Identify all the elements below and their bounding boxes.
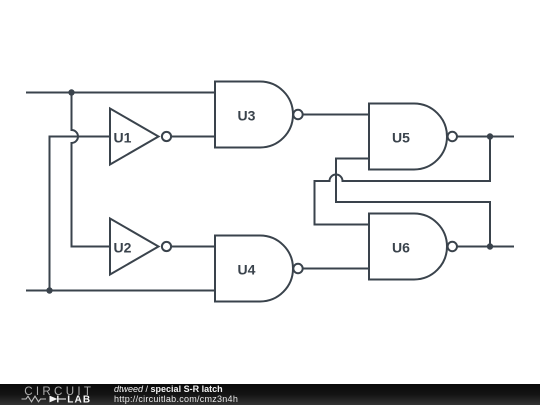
wire U6 output Q-bar [458, 246, 513, 248]
svg-text:U5: U5 [392, 130, 410, 146]
wire U1 out to U3 [172, 136, 215, 138]
node junction top [68, 89, 74, 95]
wire hop arc at (336,181) [330, 175, 343, 181]
wire bottom input R [27, 290, 215, 292]
node junction bottom [46, 287, 52, 293]
wire feedback U5 out to U6 top input (with hop over x=336 wire) [315, 137, 491, 225]
inverter U2 [110, 219, 171, 275]
svg-text:U2: U2 [114, 240, 132, 256]
wire from top junction down to U2 input (with hop over U1 input wire) [72, 93, 111, 247]
wire top input S [27, 92, 215, 94]
nand gate U4 [215, 236, 303, 302]
nand gate U3 [215, 82, 303, 148]
node junction U5 out [487, 133, 493, 139]
svg-text:U4: U4 [238, 262, 256, 278]
node junction U6 out [487, 243, 493, 249]
wire U2 out to U4 [172, 246, 215, 248]
CircuitLab logo [0, 384, 110, 405]
inverter U1 [110, 109, 171, 165]
nand gate U5 [369, 104, 457, 170]
wire U5 output Q [458, 136, 513, 138]
footer bar [0, 384, 540, 405]
svg-text:U3: U3 [238, 108, 256, 124]
wire U3 out to U5 [303, 114, 369, 116]
wire feedback U6 out to U5 bottom input [336, 159, 490, 247]
svg-text:U1: U1 [114, 130, 132, 146]
wire U4 out to U6 [303, 268, 369, 270]
svg-text:LAB: LAB [67, 394, 91, 405]
wire hop arc at (71.5,136.5) [72, 130, 79, 143]
svg-text:U6: U6 [392, 240, 410, 256]
wire from bottom junction up to U1 input [50, 137, 111, 291]
nand gate U6 [369, 214, 457, 280]
